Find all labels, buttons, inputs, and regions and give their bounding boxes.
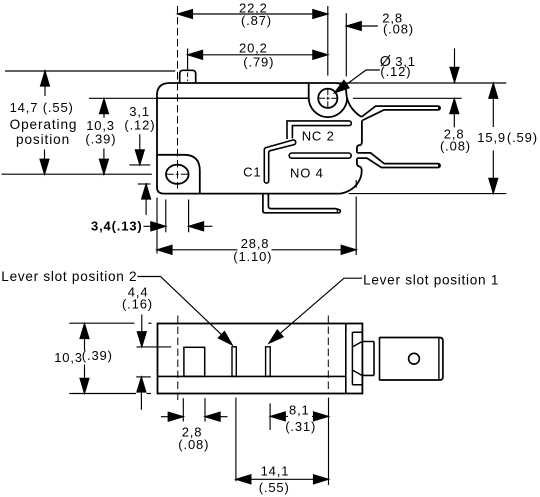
free position line: [5, 70, 175, 72]
extension line plunger centerline: [187, 49, 189, 71]
extension body bottom edge right: [349, 193, 507, 195]
extension body left edge down: [156, 198, 158, 254]
internal common arm C1: [264, 140, 295, 183]
svg-text:(.08): (.08): [178, 437, 209, 452]
extension centerline right solid: [328, 398, 330, 485]
extension 2,8 sides: [183, 398, 205, 421]
svg-text:(.39): (.39): [85, 131, 116, 146]
bottom view centerline right (dashed): [327, 316, 329, 394]
dimension 10,3 arrows: [99, 99, 108, 175]
svg-text:(.08): (.08): [440, 139, 471, 154]
cover seam line: [157, 97, 309, 99]
svg-text:(.55): (.55): [259, 480, 290, 495]
svg-text:(.59): (.59): [507, 130, 538, 145]
tick slot plane bottom: [136, 376, 151, 378]
svg-text:(1.10): (1.10): [233, 249, 272, 264]
terminal neck: [362, 338, 379, 381]
svg-text:(.16): (.16): [122, 296, 153, 311]
centerline through left mounting slot (dashed): [177, 6, 179, 189]
dimension 2,8 arrows (bottom view): [161, 412, 228, 421]
leader diam 3,1: [334, 70, 380, 93]
dimension 4,4 arrows: [137, 315, 146, 410]
extension of seam line left: [89, 97, 157, 99]
svg-text:20,2: 20,2: [239, 40, 268, 55]
dimension 28,8 line: [157, 245, 356, 254]
terminal blade hole: [409, 353, 420, 364]
tick slot top: [129, 164, 150, 166]
extension slot right edge: [188, 200, 190, 233]
svg-text:Lever slot position 1: Lever slot position 1: [363, 272, 499, 287]
svg-text:(.08): (.08): [383, 22, 414, 37]
lever slot position 2 (left slot): [232, 347, 236, 377]
dimension 2,8 top leader: [346, 22, 378, 31]
bottom view end cap line: [345, 324, 347, 394]
dimension 3,1 arrows: [135, 134, 150, 215]
extension slot left edge: [165, 200, 167, 233]
svg-text:NO 4: NO 4: [290, 165, 324, 180]
mounting slot bottom-left (3,4 x 3,1): [166, 165, 189, 184]
internal NC contact strip: [287, 121, 351, 139]
bottom view body outline: [158, 324, 363, 394]
extension line 2,8 top: [345, 13, 347, 76]
svg-text:(.87): (.87): [241, 13, 272, 28]
leader lever slot position 2: [138, 277, 233, 346]
extension 14,1 left: [235, 398, 237, 482]
dimension 2,8 right arrows: [450, 48, 459, 127]
operating position line: [2, 173, 152, 175]
svg-text:position: position: [16, 132, 70, 147]
end cap step: [352, 332, 362, 384]
dimension 10,3 arrows (bottom view): [80, 324, 89, 394]
svg-text:14,7 (.55): 14,7 (.55): [10, 100, 74, 115]
extension hole centerline right: [353, 97, 462, 99]
terminal pin NO (right, bent down): [357, 153, 440, 168]
svg-text:Lever slot position 2: Lever slot position 2: [1, 269, 137, 284]
internal NO contact strip: [289, 153, 351, 158]
crosshair of bottom-left slot: [166, 173, 188, 175]
svg-text:3,4(.13): 3,4(.13): [91, 218, 143, 233]
svg-text:10,3: 10,3: [54, 350, 83, 365]
bottom view centerline left (dashed): [177, 316, 179, 401]
dimension 8,1 line: [270, 412, 328, 421]
dimension 14,1 line: [236, 475, 329, 484]
tick bottom edge left: [69, 393, 151, 395]
dimension 14,7 arrows: [40, 71, 50, 174]
plunger: [180, 70, 196, 83]
tick slot plane top: [137, 346, 172, 348]
top-right mounting boss: [309, 83, 347, 117]
dimension 3,4 arrows: [144, 222, 213, 231]
svg-text:Operating: Operating: [10, 117, 78, 132]
terminal blade: [380, 338, 443, 381]
dimension 20,2 line: [188, 50, 328, 59]
dimension 22,2 line: [178, 10, 328, 19]
extension body top edge right: [336, 82, 506, 84]
switch body outline (side view): [157, 83, 362, 194]
svg-text:(.79): (.79): [243, 54, 274, 69]
extension 8,1 left: [269, 403, 271, 430]
tick slot bottom: [138, 183, 151, 185]
dimension 15,9 line: [489, 83, 498, 193]
terminal pin C1 (bottom, bent right): [263, 194, 340, 213]
mounting hole top-right (diam 3,1): [318, 89, 337, 108]
svg-text:(.12): (.12): [124, 117, 155, 132]
bottom-left mounting boss: [157, 155, 200, 193]
svg-text:NC 2: NC 2: [302, 128, 335, 143]
svg-text:(.31): (.31): [285, 419, 316, 434]
terminal pin NC (top right, bent up): [362, 106, 441, 120]
leader lever slot position 1: [269, 278, 362, 343]
bottom view internal line: [158, 375, 346, 377]
tick top edge left: [69, 322, 151, 324]
svg-text:14,1: 14,1: [261, 464, 290, 479]
svg-text:C1: C1: [243, 164, 261, 179]
svg-text:(.39): (.39): [82, 348, 113, 363]
crosshair of top-right hole: [318, 89, 338, 108]
svg-text:(.12): (.12): [380, 64, 411, 79]
extension 28,8 right: [355, 180, 357, 255]
svg-text:15,9: 15,9: [477, 130, 506, 145]
center square boss (2,8 wide): [184, 347, 205, 376]
lever slot position 1 (right slot): [266, 347, 271, 377]
extension line right hole centerline (vertical): [327, 6, 329, 76]
svg-text:8,1: 8,1: [289, 403, 310, 418]
